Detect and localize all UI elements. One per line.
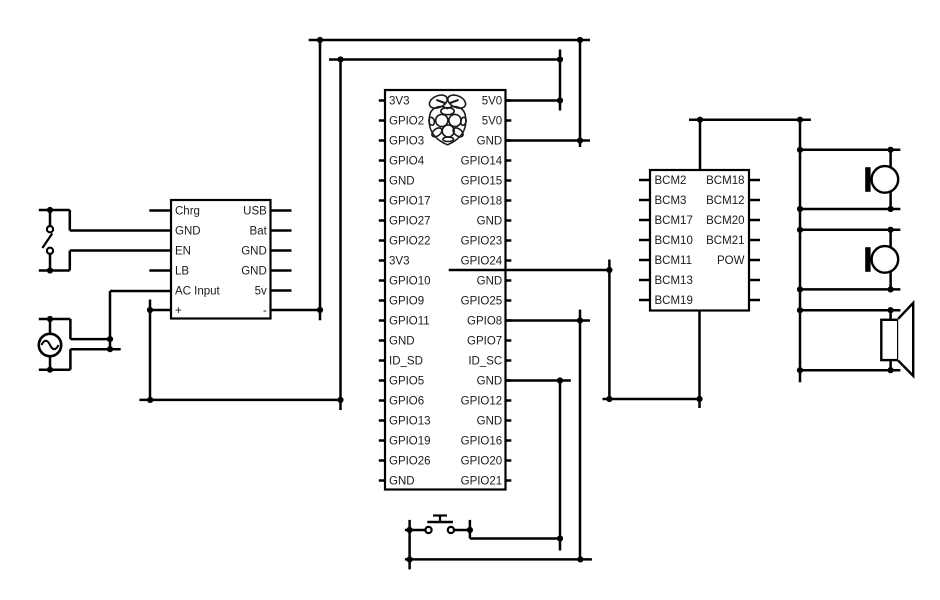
svg-text:GND: GND [389, 176, 415, 188]
AC source V1 sine [42, 341, 59, 349]
pin stub GPIO23 (U1 right row 8) [506, 239, 512, 242]
svg-text:Bat: Bat [250, 226, 268, 238]
pin stub 5V0 (U1 right row 1) [506, 99, 512, 102]
pin stub GPIO12 (U1 right row 16) [506, 399, 512, 402]
junction y399 / BCM bottom [696, 396, 702, 402]
pin stub Chrg [149, 209, 171, 212]
junction x800 / mic2 top [797, 227, 803, 233]
speaker LS1 leads [889, 310, 892, 320]
wire left drop x320 [319, 40, 322, 320]
wire GPIO8 pin [506, 319, 591, 322]
raspberry-pi logo on U1 [427, 92, 467, 144]
pin stub GPIO7 (U1 right row 13) [506, 339, 512, 342]
wire mic1 bottom rail [800, 208, 900, 211]
pin stub GND (U1 left row 5) [379, 179, 385, 182]
AC source V1 circle [39, 334, 61, 356]
junction button left [407, 527, 413, 533]
pin stub BCM17 (U3 left) [639, 219, 650, 222]
wire mic1 top rail [800, 149, 900, 152]
pin stub GPIO24 (U1 right row 9) [506, 259, 512, 262]
pin stub BCM13 (U3 left) [639, 279, 650, 282]
svg-text:GPIO7: GPIO7 [467, 336, 502, 348]
pushbutton S2 right contact wire [454, 529, 470, 532]
pin stub BCM11 (U3 left) [639, 259, 650, 262]
wire AC bottom bend [69, 349, 72, 370]
junction x340 / y400 rail [337, 397, 343, 403]
junction x800 / speaker top [797, 307, 803, 313]
BCM breakout U3 body [650, 170, 749, 311]
pin stub GND (U1 right row 17) [506, 419, 512, 422]
wire x150 drop [149, 300, 152, 400]
svg-text:GPIO27: GPIO27 [389, 216, 431, 228]
svg-text:GND: GND [477, 376, 503, 388]
junction x800 / mic2 bottom [797, 286, 803, 292]
junction x800 / speaker bottom [797, 367, 803, 373]
svg-text:BCM21: BCM21 [706, 235, 744, 247]
svg-text:LB: LB [175, 266, 189, 278]
wire speaker top rail [800, 309, 900, 312]
svg-text:GND: GND [477, 216, 503, 228]
svg-text:GND: GND [477, 416, 503, 428]
junction minus pin / drop [317, 307, 323, 313]
pushbutton S2 cap [433, 514, 447, 516]
svg-text:ID_SD: ID_SD [389, 356, 423, 368]
pin stub ID_SC (U1 right row 14) [506, 359, 512, 362]
svg-text:+: + [175, 305, 182, 317]
svg-text:GPIO9: GPIO9 [389, 296, 424, 308]
junction speaker bottom / lead [888, 367, 894, 373]
pin stub U2 right [271, 289, 292, 292]
junction second-rail / drop corner [557, 56, 563, 62]
junction GPIO8 / x580 drop [577, 317, 583, 323]
junction y120 / BCM top [697, 117, 703, 123]
svg-text:5v: 5v [255, 286, 267, 298]
motor M1 lead [889, 150, 892, 209]
svg-text:BCM13: BCM13 [655, 275, 693, 287]
junction AC top / x110 [107, 336, 113, 342]
svg-text:GPIO18: GPIO18 [461, 196, 503, 208]
svg-text:GND: GND [175, 226, 201, 238]
svg-text:GND: GND [241, 266, 267, 278]
svg-text:BCM18: BCM18 [706, 175, 744, 187]
pin stub 3V3 (U1 left row 9) [379, 259, 385, 262]
wire GND row10 horizontal [449, 269, 611, 272]
speaker LS1 driver box [881, 320, 898, 360]
wire right rail x800 [799, 120, 802, 383]
junction mic1 bottom / lead [888, 206, 894, 212]
wire AC top bend [69, 319, 72, 339]
wire GND pin (U2) [70, 229, 171, 232]
svg-text:AC Input: AC Input [175, 286, 221, 298]
pin stub GPIO8 (U1 right row 12) [506, 319, 512, 322]
junction AC top [47, 316, 53, 322]
wire button left lead [408, 520, 411, 570]
svg-text:BCM2: BCM2 [655, 175, 687, 187]
motor M1 circle [872, 166, 899, 193]
wire net5V top rail [309, 39, 590, 42]
svg-text:GPIO12: GPIO12 [461, 396, 503, 408]
wire bottom rail y559 [405, 558, 592, 561]
svg-text:BCM20: BCM20 [706, 215, 744, 227]
switch S1 terminal leads [49, 210, 52, 226]
pin stub LB [149, 269, 171, 272]
svg-text:USB: USB [243, 206, 267, 218]
svg-text:GPIO8: GPIO8 [467, 316, 502, 328]
wire AC top to drop [70, 338, 110, 341]
junction y559 / x580 [577, 556, 583, 562]
wire AC bottom to drop [70, 348, 120, 351]
junction button right [467, 527, 473, 533]
svg-text:GPIO14: GPIO14 [461, 156, 503, 168]
pushbutton S2 right contact [448, 527, 454, 533]
pin stub GPIO25 (U1 right row 11) [506, 299, 512, 302]
wire BCM bottom lead [698, 311, 701, 409]
svg-text:BCM3: BCM3 [655, 195, 687, 207]
wire x580 drop [579, 310, 582, 560]
pin stub BCM2 (U3 left) [639, 179, 650, 182]
pin stub U3 right row 5 [749, 259, 760, 262]
pin stub GPIO10 (U1 left row 10) [379, 279, 385, 282]
pin stub GPIO19 (U1 left row 18) [379, 439, 385, 442]
svg-text:GND: GND [389, 336, 415, 348]
pin stub GPIO21 (U1 right row 20) [506, 479, 512, 482]
svg-text:GPIO16: GPIO16 [461, 436, 503, 448]
svg-text:Chrg: Chrg [175, 206, 200, 218]
svg-text:GPIO4: GPIO4 [389, 156, 425, 168]
pin stub GPIO5 (U1 left row 15) [379, 379, 385, 382]
motor M2 membrane bar [865, 247, 870, 272]
pin stub GND (U1 left row 13) [379, 339, 385, 342]
junction GND row3 [577, 137, 583, 143]
pin stub GPIO9 (U1 left row 11) [379, 299, 385, 302]
pin stub GND (U1 left row 20) [379, 479, 385, 482]
wire button right lead [469, 520, 472, 539]
motor M2 circle [872, 246, 899, 273]
Raspberry Pi U1 body [385, 90, 506, 490]
pin stub GND (U1 right row 15) [506, 379, 512, 382]
svg-text:5V0: 5V0 [482, 96, 502, 108]
wire switch bottom stub [39, 269, 70, 272]
svg-text:GPIO11: GPIO11 [389, 316, 430, 328]
svg-text:-: - [263, 305, 267, 317]
svg-text:GPIO19: GPIO19 [389, 436, 431, 448]
pushbutton S2 left contact [425, 527, 431, 533]
svg-text:GND: GND [389, 476, 415, 488]
svg-text:GPIO25: GPIO25 [461, 296, 503, 308]
junction top-rail / left drop [317, 37, 323, 43]
wire left drop x340 [339, 60, 342, 411]
pin stub GPIO6 (U1 left row 16) [379, 399, 385, 402]
speaker LS1 horn [898, 303, 913, 376]
power module U2 body [171, 200, 271, 319]
pin stub U3 right row 4 [749, 239, 760, 242]
pin stub GPIO16 (U1 right row 18) [506, 439, 512, 442]
pin stub GPIO2 (U1 left row 2) [379, 119, 385, 122]
wire speaker bottom rail [800, 369, 900, 372]
junction mic2 top / lead [888, 227, 894, 233]
junction x800 / mic1 bottom [797, 206, 803, 212]
svg-text:GND: GND [241, 246, 267, 258]
pin stub GPIO27 (U1 left row 7) [379, 219, 385, 222]
pin stub U3 right row 2 [749, 199, 760, 202]
svg-text:GPIO6: GPIO6 [389, 396, 424, 408]
pin stub GND (U1 right row 10) [506, 279, 512, 282]
wire 5V0 pin to drop [506, 99, 561, 102]
switch S1 contacts [47, 226, 53, 232]
switch S1 lever [42, 234, 52, 249]
pin stub U2 right [271, 249, 292, 252]
wire x560 drop [559, 381, 562, 551]
junction plus pin / x150 drop [147, 307, 153, 313]
svg-text:GPIO15: GPIO15 [461, 176, 503, 188]
pin stub GPIO22 (U1 left row 8) [379, 239, 385, 242]
pin stub 5V0 (U1 right row 2) [506, 119, 512, 122]
svg-text:GND: GND [477, 276, 503, 288]
svg-text:GPIO23: GPIO23 [461, 236, 503, 248]
junction switch bottom [47, 267, 53, 273]
AC source V1 leads [49, 319, 52, 334]
pin stub GPIO20 (U1 right row 19) [506, 459, 512, 462]
svg-text:POW: POW [717, 255, 745, 267]
wire y400 rail [139, 399, 340, 402]
pin stub GPIO18 (U1 right row 6) [506, 199, 512, 202]
svg-text:GPIO17: GPIO17 [389, 196, 431, 208]
junction 5V0 pin wire [557, 97, 563, 103]
svg-text:GPIO24: GPIO24 [461, 256, 503, 268]
svg-text:3V3: 3V3 [389, 256, 409, 268]
wire GND row15 pin [506, 379, 571, 382]
svg-text:ID_SC: ID_SC [468, 356, 502, 368]
pin stub U2 right [271, 229, 292, 232]
pushbutton S2 stem [439, 516, 441, 523]
pin stub BCM19 (U3 left) [639, 299, 650, 302]
svg-text:BCM12: BCM12 [706, 195, 744, 207]
wire button to x560 [470, 537, 560, 540]
pin stub GPIO15 (U1 right row 5) [506, 179, 512, 182]
svg-text:GPIO5: GPIO5 [389, 376, 424, 388]
svg-text:GPIO13: GPIO13 [389, 416, 431, 428]
junction AC bottom / x110 [107, 346, 113, 352]
wire second rail [329, 58, 560, 61]
svg-text:GND: GND [477, 136, 503, 148]
svg-text:5V0: 5V0 [482, 116, 502, 128]
wire plus pin [150, 309, 171, 312]
svg-text:BCM11: BCM11 [655, 255, 693, 267]
junction y120 / right rail [797, 117, 803, 123]
svg-text:GPIO2: GPIO2 [389, 116, 424, 128]
junction x560 / button wire [557, 535, 563, 541]
pin stub U3 right row 3 [749, 219, 760, 222]
svg-text:BCM17: BCM17 [655, 215, 693, 227]
wire mic2 top rail [800, 229, 900, 232]
junction top-rail / 5V0-GND drop [577, 37, 583, 43]
wire switch bottom to EN pin [69, 251, 72, 271]
pin stub U3 right row 1 [749, 179, 760, 182]
motor M1 membrane bar [865, 167, 870, 192]
junction y399 / x609 [606, 396, 612, 402]
pin stub GPIO13 (U1 left row 17) [379, 419, 385, 422]
svg-text:BCM10: BCM10 [655, 235, 693, 247]
svg-text:3V3: 3V3 [389, 96, 409, 108]
wire EN pin (U2) [70, 249, 171, 252]
junction second-rail / left drop [337, 56, 343, 62]
pin stub U2 right [271, 269, 292, 272]
pin stub GND (U1 right row 3) [506, 139, 512, 142]
pin stub U3 right row 7 [749, 299, 760, 302]
pin stub GPIO3 (U1 left row 3) [379, 139, 385, 142]
junction y270 / x609 drop [606, 267, 612, 273]
pin stub U3 right row 6 [749, 279, 760, 282]
wire AC Input pin [110, 290, 171, 293]
pin stub GPIO4 (U1 left row 4) [379, 159, 385, 162]
motor M2 lead [889, 230, 892, 290]
wire x609 drop [608, 260, 611, 400]
pin stub GPIO11 (U1 left row 12) [379, 319, 385, 322]
pin stub GPIO26 (U1 left row 19) [379, 459, 385, 462]
wire y120 rail [689, 118, 811, 121]
junction y400 / x150 drop [147, 397, 153, 403]
svg-text:GPIO3: GPIO3 [389, 136, 424, 148]
junction x800 / mic1 top [797, 147, 803, 153]
junction switch top [47, 207, 53, 213]
svg-text:GPIO26: GPIO26 [389, 456, 431, 468]
svg-text:GPIO21: GPIO21 [461, 476, 503, 488]
pin stub U2 right [271, 209, 292, 212]
wire switch top stub [39, 209, 70, 212]
pin stub GPIO17 (U1 left row 6) [379, 199, 385, 202]
wire mic2 bottom rail [800, 288, 900, 291]
wire drop to GND pin [579, 40, 582, 147]
pin stub BCM3 (U3 left) [639, 199, 650, 202]
wire AC input drop x110 [109, 291, 112, 349]
wire y399 rail [603, 398, 700, 401]
svg-text:GPIO22: GPIO22 [389, 236, 431, 248]
svg-text:EN: EN [175, 246, 191, 258]
pin stub BCM10 (U3 left) [639, 239, 650, 242]
pin stub 3V3 (U1 left row 1) [379, 99, 385, 102]
wire switch top to GND pin [69, 210, 72, 231]
wire minus pin [271, 309, 321, 312]
pin stub ID_SD (U1 left row 14) [379, 359, 385, 362]
junction mic1 top / lead [888, 147, 894, 153]
svg-text:BCM19: BCM19 [655, 295, 693, 307]
junction mic2 bottom / lead [888, 286, 894, 292]
pin stub GPIO14 (U1 right row 4) [506, 159, 512, 162]
pin stub GND (U1 right row 7) [506, 219, 512, 222]
junction GND15 / x560 drop [557, 377, 563, 383]
wire AC top stub [39, 318, 71, 321]
svg-text:GPIO20: GPIO20 [461, 456, 503, 468]
wire AC bottom stub [39, 368, 71, 371]
wire BCM top lead [699, 120, 702, 170]
wire GND pin row3 [506, 139, 591, 142]
pushbutton S2 left contact wire [405, 529, 426, 532]
svg-text:GPIO10: GPIO10 [389, 276, 431, 288]
wire drop to 5V0 pin [559, 50, 562, 111]
junction y559 / x409 [407, 556, 413, 562]
pushbutton S2 bar [427, 521, 453, 523]
junction AC bottom [47, 367, 53, 373]
junction speaker top / lead [888, 307, 894, 313]
